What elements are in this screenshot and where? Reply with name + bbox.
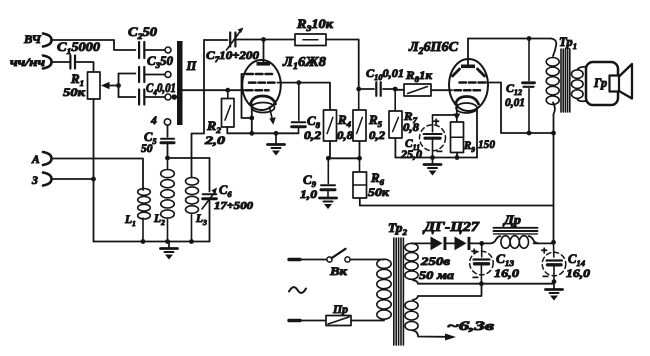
resistor R6 50к <box>353 158 390 199</box>
svg-text:16,0: 16,0 <box>566 266 590 280</box>
wire R5 bottom <box>357 141 362 161</box>
svg-text:0,2: 0,2 <box>304 130 321 142</box>
node R4/C9 junction <box>326 156 331 161</box>
svg-text:П: П <box>186 59 198 73</box>
wire R8 left <box>395 89 404 91</box>
resistor R8 1к <box>404 68 433 96</box>
wire R4-R5 bottom link <box>328 157 359 159</box>
label ВЧ/НЧ <box>10 57 45 69</box>
capacitor C5 50 <box>141 130 174 155</box>
wire C4 right <box>144 96 165 98</box>
wire R9 bottom <box>455 153 460 160</box>
svg-text:+: + <box>471 246 477 258</box>
capacitor C1 5000 <box>52 40 101 69</box>
svg-text:50к: 50к <box>368 185 390 199</box>
svg-text:Др: Др <box>503 212 522 227</box>
node anode junction <box>261 37 266 42</box>
svg-text:C15000: C15000 <box>57 40 101 56</box>
node C12 bottom <box>527 131 532 136</box>
tube Л1 envelope <box>242 54 326 110</box>
tube Л1 grid row 2 <box>249 81 275 84</box>
wire grid line from П <box>183 89 247 91</box>
svg-text:Пр: Пр <box>332 302 348 316</box>
node C14 bottom <box>552 279 557 284</box>
transformer Тр2 core <box>394 238 404 345</box>
svg-text:17÷500: 17÷500 <box>214 200 254 212</box>
svg-text:З: З <box>31 175 38 187</box>
svg-text:−: − <box>542 271 549 283</box>
wire R7 bottom <box>394 138 396 158</box>
ground rail bottom left <box>94 241 210 243</box>
wire C4 line <box>119 96 136 98</box>
wire R2 bottom <box>226 127 228 133</box>
node C11 bottom <box>430 155 435 160</box>
tube Л1 anode plate <box>257 62 271 66</box>
svg-text:250в: 250в <box>420 254 451 268</box>
svg-text:−: − <box>472 272 479 284</box>
wire diode out <box>470 242 490 244</box>
resistor R2 2,0 <box>204 90 234 147</box>
input jack З earth <box>31 173 52 188</box>
input jack ВЧ/НЧ node <box>43 56 52 69</box>
wire B+ drop <box>553 133 555 242</box>
ground symbol under L2 <box>161 242 178 260</box>
svg-text:0,2: 0,2 <box>369 130 385 142</box>
node cathode rail <box>249 131 254 136</box>
resistor R5 0,2 <box>353 89 385 142</box>
wire C3 right <box>144 74 165 76</box>
potentiometer wiper arrow <box>101 82 119 89</box>
node R5 top <box>356 87 361 92</box>
wire C3 line <box>119 73 136 75</box>
svg-text:R310к: R310к <box>296 17 334 33</box>
tube Л1 grid row 3 <box>246 89 269 92</box>
tube Л1 suppressor tie <box>242 74 255 120</box>
wire HV top to diodes <box>412 242 431 244</box>
node ground tap <box>274 131 279 136</box>
ground symbol under C14 <box>546 282 563 301</box>
resistor R4 0,8 <box>324 110 354 142</box>
svg-text:50: 50 <box>141 143 153 155</box>
node L2 bottom <box>165 239 170 244</box>
terminal circle C3 <box>165 72 171 78</box>
tube Л2 anode <box>453 65 485 77</box>
node C5/L2 junction <box>165 156 170 161</box>
fuse Пр <box>289 302 384 326</box>
resistor R1 50к potentiometer <box>63 72 100 99</box>
wire C7 feedback drop <box>192 40 205 178</box>
choke Др winding <box>491 212 554 248</box>
coil L3 <box>186 178 208 242</box>
svg-text:0,01: 0,01 <box>505 97 525 109</box>
tube Л2 heater loop <box>456 103 477 113</box>
svg-text:Л16Ж8: Л16Ж8 <box>282 54 326 71</box>
svg-text:2,0: 2,0 <box>204 133 225 147</box>
svg-text:−: − <box>436 146 443 158</box>
wire R1 bottom to ground rail <box>93 99 95 242</box>
node C13 top <box>479 241 484 246</box>
wire screen line <box>278 83 331 110</box>
input jack А antenna <box>31 152 52 166</box>
svg-text:чч/нч: чч/нч <box>10 57 45 69</box>
transformer Тр2 primary <box>377 221 408 319</box>
transformer Тр1 secondary <box>572 67 587 101</box>
electrolytic C11 25,0 <box>400 115 446 161</box>
svg-text:Гр: Гр <box>593 76 607 90</box>
capacitor C4 0,01 <box>139 81 176 105</box>
wire R4 bottom <box>329 141 331 158</box>
electrolytic C14 16,0 <box>541 242 590 283</box>
wire filament return <box>413 284 482 300</box>
wire cathode lead <box>251 104 253 133</box>
ground symbol under C11 <box>424 158 441 176</box>
wire beam plate drop <box>476 109 478 158</box>
svg-text:50к: 50к <box>63 85 86 99</box>
svg-text:Л26П6С: Л26П6С <box>408 39 459 56</box>
tube Л1 grid row 1 <box>242 73 273 75</box>
resistor R7 0,8 <box>389 89 419 138</box>
coil L2 <box>153 158 174 242</box>
wire C11 to cathode <box>433 114 457 116</box>
tube Л1 heater loop <box>252 103 275 113</box>
input jack ВЧ <box>23 32 52 47</box>
svg-text:4: 4 <box>150 115 157 127</box>
svg-text:0,8: 0,8 <box>337 130 353 142</box>
svg-text:0,8: 0,8 <box>403 122 419 134</box>
svg-text:25,0: 25,0 <box>400 149 422 161</box>
wire tuned line <box>168 157 210 159</box>
transformer Тр1 core <box>561 49 570 112</box>
node R7 top <box>393 87 398 92</box>
speaker Гр housing <box>586 62 618 105</box>
node Тр1 bottom junction <box>551 131 556 136</box>
wire R8 to grid Л2 <box>431 89 452 91</box>
capacitor C10 0,01 <box>359 66 404 96</box>
switch contact dot <box>172 94 178 100</box>
svg-text:Вк: Вк <box>329 264 348 278</box>
diode ДГ-Ц27 D1 <box>422 219 481 250</box>
capacitor C12 0,01 <box>505 39 535 134</box>
wire terminal to C5 <box>167 125 169 137</box>
wire ВЧ to C2 <box>52 40 135 50</box>
node C12 top <box>527 36 532 41</box>
node L1 bottom <box>141 239 146 244</box>
wire C10 to R8 node <box>383 88 395 90</box>
tube Л1 cathode arc <box>251 96 276 104</box>
svg-text:C250: C250 <box>128 25 158 41</box>
svg-text:ДГ-Ц27: ДГ-Ц27 <box>422 219 481 234</box>
tube Л1 filament arrow <box>269 107 276 125</box>
transformer Тр2 filament winding <box>405 301 418 330</box>
node C8 tap <box>296 80 301 85</box>
node R2 top <box>225 88 230 93</box>
wire top rail left <box>204 39 228 41</box>
svg-text:50 ма: 50 ма <box>419 268 454 282</box>
svg-text:150: 150 <box>478 137 495 151</box>
svg-text:C100,01: C100,01 <box>366 66 404 82</box>
resistor R3 10к <box>295 17 334 46</box>
speaker voice coil <box>610 76 620 92</box>
svg-text:~6,3в: ~6,3в <box>447 319 495 333</box>
wire C2 right <box>144 49 165 51</box>
wire 6,3в lead arrow <box>413 319 495 341</box>
wire cathode rail <box>227 132 298 134</box>
wire screen B+ link <box>485 83 554 134</box>
variable capacitor C6 17÷500 <box>202 158 254 242</box>
tube Л2 envelope <box>408 39 488 111</box>
svg-text:ВЧ: ВЧ <box>23 32 42 46</box>
node B+ junction <box>551 240 556 245</box>
capacitor C3 50 <box>139 54 174 82</box>
node C13 bottom <box>479 281 484 286</box>
choke Др core <box>494 228 538 234</box>
wire return rail <box>413 280 554 284</box>
svg-text:А: А <box>31 154 40 166</box>
wire between diodes <box>446 242 454 244</box>
resistor R9 150 <box>451 122 496 154</box>
svg-text:1,0: 1,0 <box>300 189 317 201</box>
transformer Тр1 primary <box>546 35 577 133</box>
svg-text:C40,01: C40,01 <box>146 81 176 97</box>
transformer Тр2 HV secondary <box>405 243 454 282</box>
speaker cone <box>619 64 632 99</box>
wire R6 to B+ line <box>360 198 554 206</box>
capacitor C9 1,0 <box>300 158 335 201</box>
wire З to R1 line <box>52 177 96 182</box>
svg-text:R81к: R81к <box>405 68 433 84</box>
wire C7 to anode node <box>235 39 295 41</box>
ground symbol under Л1 <box>268 133 285 155</box>
tube Л2 cathode arc <box>456 97 479 105</box>
svg-text:C350: C350 <box>147 54 174 70</box>
tube Л2 control grid row <box>455 89 481 92</box>
variable capacitor C7 10÷200 <box>206 28 259 65</box>
capacitor C8 0,2 <box>292 83 322 142</box>
switch П slider bar <box>177 41 198 125</box>
terminal circle C2 <box>165 47 171 53</box>
AC tilde symbol <box>289 287 306 293</box>
wire C1 to R1 top <box>75 62 94 72</box>
switch Вк <box>289 249 384 278</box>
node wiper junction <box>116 74 121 98</box>
wire cathode ground rail <box>395 157 477 159</box>
terminal 4 <box>150 115 171 127</box>
svg-text:+: + <box>433 116 439 128</box>
svg-text:16,0: 16,0 <box>494 266 519 280</box>
wire C5 to L2 top <box>167 145 169 159</box>
wire antenna to L1 <box>52 159 143 191</box>
electrolytic C13 16,0 <box>470 243 519 284</box>
tube Л2 screen grid row <box>460 81 486 84</box>
node L3 bottom <box>189 239 194 244</box>
wire Л2 cathode lead arrow <box>453 104 460 122</box>
wire Л2 anode rail <box>468 38 551 40</box>
ground symbol under C9 <box>320 198 337 209</box>
svg-text:+: + <box>541 245 547 257</box>
terminal circle C4 <box>165 94 171 100</box>
capacitor C2 50 <box>128 25 158 58</box>
svg-text:C710÷200: C710÷200 <box>206 48 259 64</box>
wire R3 to C10 drop <box>326 40 359 90</box>
wire anode lead <box>263 40 265 63</box>
coil L1 <box>124 189 150 242</box>
wire Л2 anode lead <box>467 39 469 65</box>
diode ДГ-Ц27 D2 <box>455 237 471 251</box>
